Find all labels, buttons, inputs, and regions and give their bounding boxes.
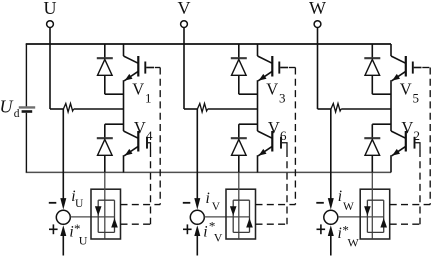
diode VD6 anode lead — [238, 155, 240, 172]
minus sign at summing junction V — [183, 202, 191, 204]
wire: current feedback iU — [62, 109, 64, 199]
transistor V4 collector diagonal — [124, 131, 139, 138]
hysteresis controller box W — [360, 189, 390, 239]
diode VD6 triangle — [232, 139, 247, 155]
wire: summing junction W to controller — [338, 216, 384, 218]
summing junction W — [324, 210, 338, 224]
diode VD4 cathode bar — [97, 137, 113, 139]
transistor V6 emitter lead — [257, 155, 259, 172]
diode VD3 cathode lead — [238, 44, 240, 58]
wire: current feedback iW — [330, 109, 332, 199]
transistor V3 collector lead — [257, 44, 259, 56]
wire: leg midpoint to diode VD6 — [239, 123, 258, 125]
wire: leg U midpoint vertical — [123, 80, 125, 131]
diode VD1 cathode bar — [97, 57, 113, 59]
diode VD3 cathode bar — [231, 57, 247, 59]
diode VD6 cathode bar — [231, 137, 247, 139]
battery Ud negative plate (short) — [22, 110, 33, 113]
svg-text:4: 4 — [146, 128, 153, 143]
controller inner bottom bar W — [367, 231, 383, 233]
dashed controller output upper W — [390, 204, 431, 206]
wire: DC source lower lead — [25, 113, 27, 173]
controller inner right line U — [114, 200, 116, 232]
diode VD2 triangle — [365, 139, 380, 155]
gate lead V1 — [146, 67, 154, 69]
dashed gate line V4 vertical — [150, 150, 152, 224]
transistor V5 collector lead — [390, 44, 392, 56]
wire: lower rail tap through controller W — [371, 172, 373, 238]
controller inner down arrow V — [230, 206, 237, 216]
svg-text:V: V — [214, 231, 223, 245]
current sensor squiggle (phase V) — [197, 104, 207, 113]
wire: terminal V down to phase node — [183, 28, 185, 109]
svg-text:i: i — [206, 190, 210, 207]
wire: reference current i*V — [196, 236, 198, 256]
transistor V3 bar — [271, 56, 273, 77]
svg-text:U: U — [75, 198, 84, 210]
transistor V2 collector diagonal — [391, 131, 406, 138]
wire: leg W midpoint vertical — [390, 80, 392, 131]
controller inner right line V — [249, 200, 251, 232]
dashed gate line V1 horizontal top — [155, 67, 160, 69]
arrow: iU into summing junction — [60, 198, 66, 210]
diode VD1 triangle — [98, 59, 113, 75]
dashed gate line V5 vertical — [429, 68, 431, 205]
transistor V4 bar — [137, 131, 139, 152]
hysteresis controller box V — [226, 189, 256, 239]
controller inner left line U — [97, 200, 99, 232]
gate lead V4 — [148, 143, 151, 150]
controller inner bottom bar U — [98, 231, 114, 233]
diode VD2 cathode bar — [364, 137, 380, 139]
node: sense tap W — [330, 108, 332, 110]
transistor V2 emitter diagonal — [392, 146, 406, 156]
transistor V5 emitter arrow — [392, 74, 400, 81]
transistor V2 bar — [405, 131, 407, 152]
svg-text:W: W — [348, 235, 360, 249]
wire: phase V line to sense tap — [184, 108, 197, 110]
wire: phase U line to sense tap — [50, 108, 63, 110]
wire: DC bus negative rail (bottom) — [26, 171, 391, 173]
plus sign at summing junction W — [317, 228, 326, 230]
wire: summing junction V to controller — [204, 216, 249, 218]
diode VD2 cathode lead — [371, 124, 373, 138]
gate bar V2 — [414, 137, 416, 149]
wire: terminal W down to phase node — [317, 28, 319, 109]
arrow: i*W into summing junction — [328, 225, 334, 236]
dashed gate line V6 vertical — [286, 150, 288, 224]
transistor V4 emitter diagonal — [124, 146, 138, 156]
diode VD3 triangle — [232, 59, 247, 75]
current sensor squiggle (phase U) — [63, 104, 73, 113]
hysteresis controller box U — [91, 189, 121, 239]
svg-text:U: U — [79, 233, 88, 247]
wire: phase U line to leg midpoint — [74, 108, 124, 110]
diode VD5 anode lead — [371, 75, 373, 94]
wire: leg V midpoint vertical — [257, 80, 259, 131]
wire: diode VD3 to leg midpoint — [239, 93, 258, 95]
transistor V2 emitter lead — [390, 155, 392, 172]
gate lead V2 — [415, 143, 420, 150]
wire: DC bus positive rail (top) — [26, 43, 391, 45]
controller inner top bar V — [233, 199, 249, 201]
dashed controller output upper U — [121, 204, 161, 206]
wire: diode VD5 to leg midpoint — [372, 93, 391, 95]
svg-text:U: U — [0, 96, 14, 116]
controller inner left line V — [232, 200, 234, 232]
summing junction V — [190, 210, 204, 224]
diode VD4 anode lead — [104, 155, 106, 172]
controller inner down arrow U — [95, 206, 102, 216]
transistor V3 emitter diagonal — [258, 71, 272, 81]
svg-text:U: U — [44, 0, 57, 18]
wire: leg midpoint to diode VD2 — [372, 123, 391, 125]
controller inner right line W — [383, 200, 385, 232]
diode VD4 triangle — [98, 139, 113, 155]
wire: phase V line to leg midpoint — [208, 108, 258, 110]
diode VD4 cathode lead — [104, 124, 106, 138]
dashed gate line V1 vertical — [159, 68, 161, 205]
wire: current feedback iV — [196, 109, 198, 199]
transistor V1 bar — [137, 56, 139, 77]
svg-text:V: V — [132, 80, 144, 99]
svg-text:V: V — [268, 118, 280, 137]
transistor V3 collector diagonal — [258, 56, 273, 63]
diode VD5 cathode bar — [364, 57, 380, 59]
wire: leg midpoint to diode VD4 — [105, 123, 124, 125]
wire: phase W line to sense tap — [318, 108, 331, 110]
current sensor squiggle (phase W) — [331, 104, 341, 113]
transistor V6 collector diagonal — [258, 131, 273, 138]
controller inner up arrow W — [380, 218, 387, 228]
dashed gate line V3 vertical — [294, 68, 296, 205]
svg-text:i: i — [338, 188, 342, 205]
transistor V5 emitter diagonal — [392, 71, 406, 81]
dashed controller output lower W — [390, 223, 420, 225]
svg-text:V: V — [266, 80, 278, 99]
wire: DC source upper lead — [25, 44, 27, 106]
diode VD1 cathode lead — [104, 44, 106, 58]
svg-text:2: 2 — [414, 128, 421, 143]
arrow: i*U into summing junction — [60, 225, 66, 236]
wire: phase W line to leg midpoint — [341, 108, 391, 110]
gate bar V4 — [146, 137, 148, 149]
controller inner down arrow W — [364, 206, 371, 216]
transistor V1 emitter arrow — [125, 74, 133, 81]
svg-text:V: V — [400, 80, 412, 99]
controller inner top bar U — [98, 199, 114, 201]
plus sign at summing junction V — [183, 228, 192, 230]
svg-text:V: V — [178, 0, 191, 18]
wire: lower rail tap through controller V — [238, 172, 240, 238]
dashed gate line V5 horizontal top — [422, 67, 430, 69]
svg-text:5: 5 — [413, 90, 420, 105]
transistor V1 collector lead — [123, 44, 125, 56]
svg-text:1: 1 — [145, 90, 152, 105]
arrow: iW into summing junction — [328, 198, 334, 210]
transistor V1 emitter diagonal — [124, 71, 138, 81]
svg-text:6: 6 — [280, 128, 287, 143]
dashed gate line V2 vertical — [419, 150, 421, 224]
dashed controller output lower V — [256, 223, 288, 225]
terminal W (open circle) — [314, 21, 321, 28]
svg-text:3: 3 — [279, 90, 286, 105]
wire: lower rail tap through controller U — [104, 172, 106, 238]
transistor V4 emitter arrow — [125, 149, 133, 156]
dashed controller output upper V — [256, 204, 296, 206]
terminal U (open circle) — [47, 21, 54, 28]
transistor V6 emitter diagonal — [258, 146, 272, 156]
arrow: iV into summing junction — [194, 198, 200, 210]
minus sign at summing junction W — [316, 202, 324, 204]
dashed controller output lower U — [121, 223, 151, 225]
svg-text:i: i — [203, 224, 207, 241]
controller inner up arrow V — [246, 218, 253, 228]
diode VD6 cathode lead — [238, 124, 240, 138]
svg-text:W: W — [343, 201, 354, 213]
transistor V6 emitter arrow — [259, 149, 267, 156]
wire: reference current i*W — [330, 236, 332, 256]
summing junction U — [56, 210, 70, 224]
wire: reference current i*U — [62, 236, 64, 256]
transistor V5 bar — [405, 56, 407, 77]
gate lead V5 — [414, 67, 422, 69]
svg-text:W: W — [309, 0, 326, 18]
svg-text:V: V — [134, 118, 146, 137]
wire: summing junction U to controller — [70, 216, 114, 218]
gate bar V3 — [278, 62, 280, 74]
transistor V6 bar — [271, 131, 273, 152]
diode VD5 triangle — [365, 59, 380, 75]
gate bar V6 — [280, 137, 282, 149]
svg-text:V: V — [401, 118, 413, 137]
transistor V4 emitter lead — [123, 155, 125, 172]
controller inner bottom bar V — [233, 231, 249, 233]
dashed gate line V3 horizontal top — [289, 67, 296, 69]
diode VD5 cathode lead — [371, 44, 373, 58]
svg-text:V: V — [212, 201, 221, 213]
svg-text:d: d — [14, 108, 20, 120]
transistor V3 emitter arrow — [259, 74, 267, 81]
plus sign at summing junction U — [49, 228, 58, 230]
diode VD3 anode lead — [238, 75, 240, 94]
arrow: i*V into summing junction — [194, 225, 200, 236]
node: sense tap V — [196, 108, 198, 110]
diode VD1 anode lead — [104, 75, 106, 94]
terminal V (open circle) — [181, 21, 188, 28]
gate lead V6 — [282, 143, 287, 150]
transistor V2 emitter arrow — [392, 149, 400, 156]
gate lead V3 — [280, 67, 288, 69]
svg-text:i: i — [338, 225, 342, 242]
controller inner top bar W — [367, 199, 383, 201]
wire: diode VD1 to leg midpoint — [105, 93, 124, 95]
gate bar V1 — [144, 62, 146, 74]
controller inner left line W — [366, 200, 368, 232]
gate bar V5 — [412, 62, 414, 74]
controller inner up arrow U — [111, 218, 118, 228]
diode VD2 anode lead — [371, 155, 373, 172]
node: sense tap U — [62, 108, 64, 110]
transistor V1 collector diagonal — [124, 56, 139, 63]
wire: terminal U down to phase node — [49, 28, 51, 109]
transistor V5 collector diagonal — [391, 56, 406, 63]
battery Ud positive plate (long) — [19, 106, 35, 108]
minus sign at summing junction U — [49, 202, 57, 204]
